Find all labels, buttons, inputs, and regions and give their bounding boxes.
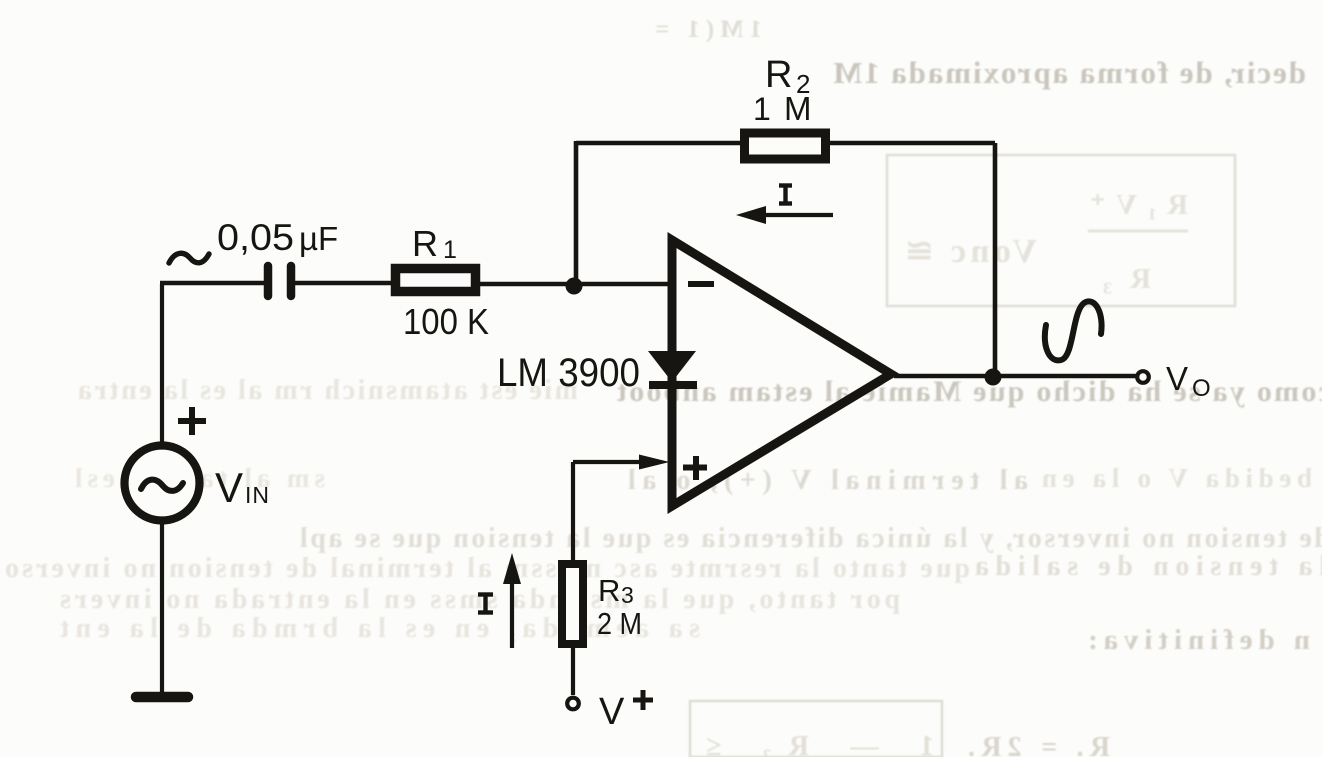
output sine symbol [1045, 301, 1102, 360]
current arrow I into R3 [510, 572, 514, 648]
svg-text:1: 1 [753, 91, 771, 127]
op-amp non-inverting input plus sign [683, 465, 707, 471]
svg-text:Vonc ≅: Vonc ≅ [905, 233, 1037, 270]
wire: R3 to V+ terminal [571, 644, 575, 695]
svg-text:V: V [215, 464, 243, 511]
ground [136, 692, 188, 703]
current label I (R3) [478, 592, 493, 596]
current arrow I through R2 [760, 213, 833, 217]
wire: input node down to source top [160, 284, 164, 446]
resistor R1 body [396, 269, 476, 292]
svg-text:R: R [412, 223, 438, 264]
svg-text:R: R [598, 573, 620, 608]
svg-text:que tanto la resrmte asc: que tanto la resrmte asc mnssm al termin… [5, 553, 970, 584]
terminal: Vo open circle [1137, 371, 1149, 383]
svg-text:V: V [1166, 360, 1188, 397]
svg-text:0,05: 0,05 [217, 217, 294, 258]
svg-text:LM 3900: LM 3900 [497, 351, 640, 395]
resistor R2 body [745, 133, 826, 159]
wire: feedback top horizontal [576, 141, 995, 146]
svg-text:2 M: 2 M [597, 606, 642, 641]
source VIN circle [125, 446, 200, 521]
wire: capacitor to resistor R1 [295, 281, 395, 286]
node: junction dot at inverting input [566, 278, 583, 295]
resistor R3 body [562, 564, 583, 644]
svg-text:O: O [1192, 375, 1211, 402]
wire: op-amp output [894, 374, 1136, 379]
svg-text:3: 3 [621, 582, 634, 608]
svg-text:V: V [599, 691, 625, 733]
wire: R1 to inverting input of op-amp [475, 282, 672, 287]
op-amp inverting input minus sign [688, 281, 714, 287]
terminal: V+ open circle [567, 698, 579, 710]
capacitor C1 plates [264, 266, 273, 296]
wire: non-inverting input horizontal with arrowhead [573, 460, 648, 464]
svg-text:M: M [784, 90, 812, 127]
op-amp U1 triangle [672, 240, 891, 506]
AC tilde mark at input node [169, 253, 209, 263]
Norton current-mirror diode on op-amp left edge [648, 351, 696, 382]
svg-text:1: 1 [443, 236, 457, 264]
svg-text:IN: IN [245, 482, 270, 508]
wire: feedback right vertical down to output node [993, 143, 998, 377]
wire: input line from source to capacitor [160, 281, 264, 286]
wire: feedback left vertical [574, 141, 579, 286]
wire: source bottom to ground [160, 520, 164, 695]
wire: vertical from plus input down to R3 [571, 462, 575, 564]
svg-text:100 K: 100 K [403, 301, 489, 342]
svg-text:bedida V o la en: bedida V o la en [1042, 463, 1312, 493]
svg-text:µF: µF [299, 220, 338, 257]
current label I (feedback) [779, 183, 792, 187]
source VIN plus sign [178, 418, 206, 424]
source VIN tilde [141, 480, 183, 491]
node: output junction dot [985, 369, 1002, 386]
svg-text:como ya se ha dicho que Mamie: como ya se ha dicho que Mamie al estam a… [617, 375, 1322, 408]
